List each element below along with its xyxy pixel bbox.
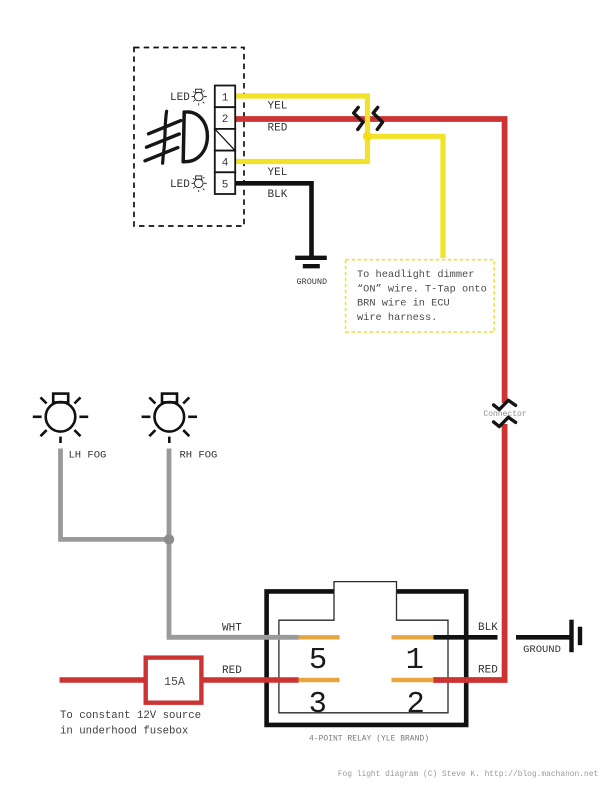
relay outer case	[267, 591, 467, 725]
headlight dimmer note box	[346, 260, 495, 332]
svg-text:BLK: BLK	[268, 189, 288, 201]
svg-text:wire harness.: wire harness.	[357, 312, 437, 324]
LED indicator pin 5	[170, 176, 207, 192]
svg-text:YEL: YEL	[268, 167, 288, 179]
svg-text:GROUND: GROUND	[297, 277, 328, 287]
svg-text:3: 3	[309, 688, 327, 722]
LED indicator pin 1	[170, 89, 207, 105]
svg-text:4: 4	[222, 157, 229, 169]
svg-text:5: 5	[222, 180, 229, 192]
svg-text:RH FOG: RH FOG	[180, 449, 218, 461]
svg-text:WHT: WHT	[222, 622, 242, 634]
svg-text:in underhood fusebox: in underhood fusebox	[60, 726, 188, 738]
svg-text:RED: RED	[222, 665, 242, 677]
wire BLK from switch pin 5	[236, 183, 312, 256]
svg-text:RED: RED	[478, 665, 498, 677]
wire YEL from switch pin 1	[234, 96, 368, 136]
svg-text:To constant 12V source: To constant 12V source	[60, 710, 201, 722]
svg-text:“ON” wire. T-Tap onto: “ON” wire. T-Tap onto	[357, 283, 487, 295]
switch connector pin block	[215, 86, 235, 195]
RH fog lamp bulb	[142, 394, 197, 443]
grey junction dot	[164, 534, 174, 544]
wire RED from 12V source to fuse	[60, 677, 148, 682]
wire YEL to headlight dimmer note	[368, 136, 444, 258]
svg-text:YEL: YEL	[268, 100, 288, 112]
pin 3 keyway diagonal	[216, 130, 235, 150]
wire RED from fuse to relay pin 3	[202, 677, 299, 682]
svg-text:BLK: BLK	[478, 622, 498, 634]
svg-text:Fog light diagram (C) Steve K.: Fog light diagram (C) Steve K. http://bl…	[338, 770, 598, 779]
note text	[357, 269, 487, 324]
svg-text:15A: 15A	[164, 676, 185, 689]
svg-text:LH FOG: LH FOG	[69, 449, 107, 461]
LH fog lamp bulb	[33, 394, 88, 443]
fog light switch dashed enclosure	[134, 48, 244, 227]
wire BLK from relay pin 1	[434, 635, 498, 640]
ground symbol (relay)	[572, 620, 581, 653]
wire WHT from RH fog lamp to relay pin 5	[169, 449, 299, 638]
relay inner housing with key tab	[279, 582, 448, 713]
svg-text:5: 5	[309, 644, 327, 678]
relay terminal pin 3	[299, 678, 340, 682]
inline connector break marks on red wire	[494, 400, 516, 409]
svg-text:LED: LED	[170, 92, 190, 104]
wire RED lower run to relay pin 2	[433, 424, 505, 680]
wire WHT from LH fog lamp	[61, 449, 170, 540]
svg-text:BRN wire in ECU: BRN wire in ECU	[357, 298, 450, 310]
ground symbol (switch)	[295, 258, 327, 266]
relay terminal pin 1	[392, 635, 434, 639]
wire YEL to switch pin 4	[234, 136, 368, 161]
svg-text:RED: RED	[268, 123, 288, 135]
crossing break mark left	[354, 107, 363, 129]
crossing break mark right	[373, 107, 382, 129]
wire RED from switch pin 2 (upper run)	[234, 119, 505, 403]
svg-text:1: 1	[406, 644, 424, 678]
svg-text:4-POINT RELAY (YLE BRAND): 4-POINT RELAY (YLE BRAND)	[309, 734, 429, 743]
svg-text:2: 2	[222, 114, 229, 126]
svg-text:To headlight dimmer: To headlight dimmer	[357, 269, 474, 281]
relay terminal pin 5	[299, 635, 340, 639]
ground lead (relay)	[516, 635, 570, 640]
fuse 15A	[146, 658, 202, 703]
text: to constant 12V source	[60, 710, 201, 738]
svg-text:2: 2	[406, 688, 424, 722]
svg-text:LED: LED	[170, 179, 190, 191]
yellow junction dot	[363, 132, 372, 141]
relay terminal pin 2	[392, 678, 434, 682]
fog lamp symbol on switch	[145, 111, 207, 163]
svg-text:Connector: Connector	[483, 410, 526, 419]
svg-text:1: 1	[222, 92, 229, 104]
svg-text:GROUND: GROUND	[523, 644, 561, 656]
